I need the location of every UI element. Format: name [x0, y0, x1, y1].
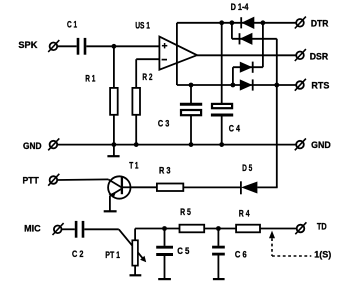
wire D3 left vertical to RTS line — [232, 67, 234, 85]
node C6 on TD line — [216, 226, 221, 231]
wire R3 to D5 — [183, 186, 241, 188]
wire DTR top line — [177, 22, 296, 24]
wire C1 to op-amp + input — [86, 45, 159, 47]
wire RTS bottom line — [177, 84, 296, 86]
ground symbol at T1 emitter — [104, 210, 117, 212]
terminal SPK — [48, 40, 59, 52]
wire C4 bottom lead — [221, 116, 223, 145]
wire C5 bottom lead — [164, 256, 166, 279]
wire C6 top lead — [217, 229, 219, 246]
capacitor C1 — [78, 38, 85, 55]
wire op-amp - input — [136, 58, 159, 60]
svg-text:PT 1: PT 1 — [105, 250, 120, 261]
wire R1 top lead — [113, 46, 115, 88]
node C5 on TD line — [162, 226, 167, 231]
resistor R2 — [132, 88, 140, 115]
terminal DTR — [295, 17, 306, 29]
svg-text:C 6: C 6 — [235, 250, 247, 261]
resistor R5 — [180, 225, 205, 233]
diode D3 — [240, 62, 253, 73]
terminal MIC — [53, 223, 64, 235]
svg-text:R 3: R 3 — [159, 166, 171, 177]
svg-text:D 1-4: D 1-4 — [231, 2, 249, 13]
svg-text:US 1: US 1 — [135, 21, 150, 32]
wire MIC to C2 — [62, 228, 75, 230]
wire PTT to base — [57, 178, 108, 181]
svg-text:D 5: D 5 — [242, 163, 253, 174]
ground symbol at C5 — [158, 278, 171, 280]
capacitor C5 — [156, 247, 173, 254]
annotation arrow to TD line — [269, 231, 311, 256]
wire R1 bottom lead — [113, 115, 115, 145]
diode D4 — [240, 79, 253, 90]
capacitor C4 — [211, 104, 233, 115]
svg-text:R 2: R 2 — [142, 72, 152, 83]
wire C3 top lead — [190, 85, 192, 104]
wire C4 vertical from top line — [221, 23, 223, 104]
svg-text:R 4: R 4 — [239, 209, 250, 220]
svg-text:GND: GND — [23, 141, 42, 152]
terminal PTT — [48, 174, 59, 186]
svg-text:C 4: C 4 — [229, 123, 241, 134]
ground symbol below GND rail — [107, 145, 119, 157]
wire D5 to RTS vertical — [257, 186, 277, 188]
terminal TD — [295, 222, 306, 234]
op-amp U1 triangle — [159, 37, 197, 70]
potentiometer PT1 body — [132, 240, 138, 265]
svg-text:T 1: T 1 — [129, 160, 139, 171]
node on top line at D3 branch — [261, 20, 266, 25]
terminal GND right — [295, 138, 306, 150]
svg-text:RTS: RTS — [311, 80, 329, 91]
wire D2 left vertical — [231, 23, 233, 39]
svg-text:C 1: C 1 — [67, 20, 78, 31]
wire D3 row — [233, 66, 263, 68]
wire C3 bottom lead — [190, 116, 192, 145]
wire R2 top lead — [135, 59, 137, 88]
resistor R1 — [110, 88, 118, 115]
diode D2 — [240, 33, 253, 45]
node C3 on GND rail — [189, 142, 194, 147]
wire GND rail — [57, 144, 296, 146]
svg-text:GND: GND — [311, 140, 331, 151]
resistor R4 — [236, 225, 260, 233]
wire collector to R3 — [130, 186, 157, 188]
svg-text:R 1: R 1 — [85, 73, 96, 84]
wire TD line — [135, 228, 297, 230]
node R2 on GND rail — [134, 142, 139, 147]
terminal GND left — [48, 138, 59, 150]
node on top line at C4 vertical — [219, 20, 224, 25]
wire feedback box left vertical — [176, 23, 178, 85]
svg-text:R 5: R 5 — [180, 207, 191, 218]
wire R2 bottom lead — [135, 115, 137, 145]
potentiometer PT1 wiper arrow — [119, 229, 146, 262]
svg-text:PTT: PTT — [23, 175, 39, 186]
wire SPK to C1 — [57, 45, 76, 47]
ground symbol at PT1 — [130, 274, 142, 276]
svg-text:DTR: DTR — [311, 18, 329, 29]
wire PT1 top lead to TD line — [134, 229, 136, 241]
op-amp plus sign — [162, 43, 167, 48]
op-amp minus sign — [162, 59, 167, 61]
node junction C1/R1 — [112, 44, 117, 49]
node D3 branch on RTS line — [231, 83, 236, 88]
svg-text:MIC: MIC — [24, 224, 41, 235]
svg-text:SPK: SPK — [18, 40, 37, 51]
wire output DSR line — [197, 54, 296, 56]
capacitor C6 — [212, 247, 225, 254]
capacitor C2 — [76, 221, 83, 238]
node D2 branch on RTS line — [274, 83, 279, 88]
terminal RTS — [295, 79, 306, 91]
svg-text:TD: TD — [317, 222, 327, 233]
wire D2 row — [232, 38, 277, 40]
wire C2 to wiper — [84, 228, 119, 230]
svg-text:1(S): 1(S) — [314, 250, 331, 261]
svg-text:C 5: C 5 — [177, 246, 190, 257]
wire D3 right vertical to top line — [262, 23, 264, 67]
ground symbol at C6 — [213, 278, 225, 280]
transistor Q1 T1 — [108, 176, 130, 198]
node R1 on GND rail — [112, 142, 117, 147]
resistor R3 — [157, 184, 183, 192]
wire C5 top lead — [164, 229, 166, 246]
capacitor C3 — [180, 104, 202, 115]
node on top line at D2 branch — [230, 20, 235, 25]
node C3 on RTS line — [189, 83, 194, 88]
wire C6 bottom lead — [217, 255, 219, 279]
node C4 on GND rail — [219, 142, 224, 147]
terminal DSR — [295, 49, 306, 61]
wire D2 right vertical down to RTS and D5 — [276, 39, 278, 188]
wire PT1 bottom lead — [134, 266, 136, 276]
diode D1 — [241, 17, 254, 29]
svg-text:DSR: DSR — [310, 51, 328, 62]
svg-text:C 2: C 2 — [72, 249, 83, 260]
wire T1 emitter down — [109, 196, 111, 211]
svg-text:C 3: C 3 — [158, 119, 169, 130]
diode D5 — [241, 181, 258, 194]
